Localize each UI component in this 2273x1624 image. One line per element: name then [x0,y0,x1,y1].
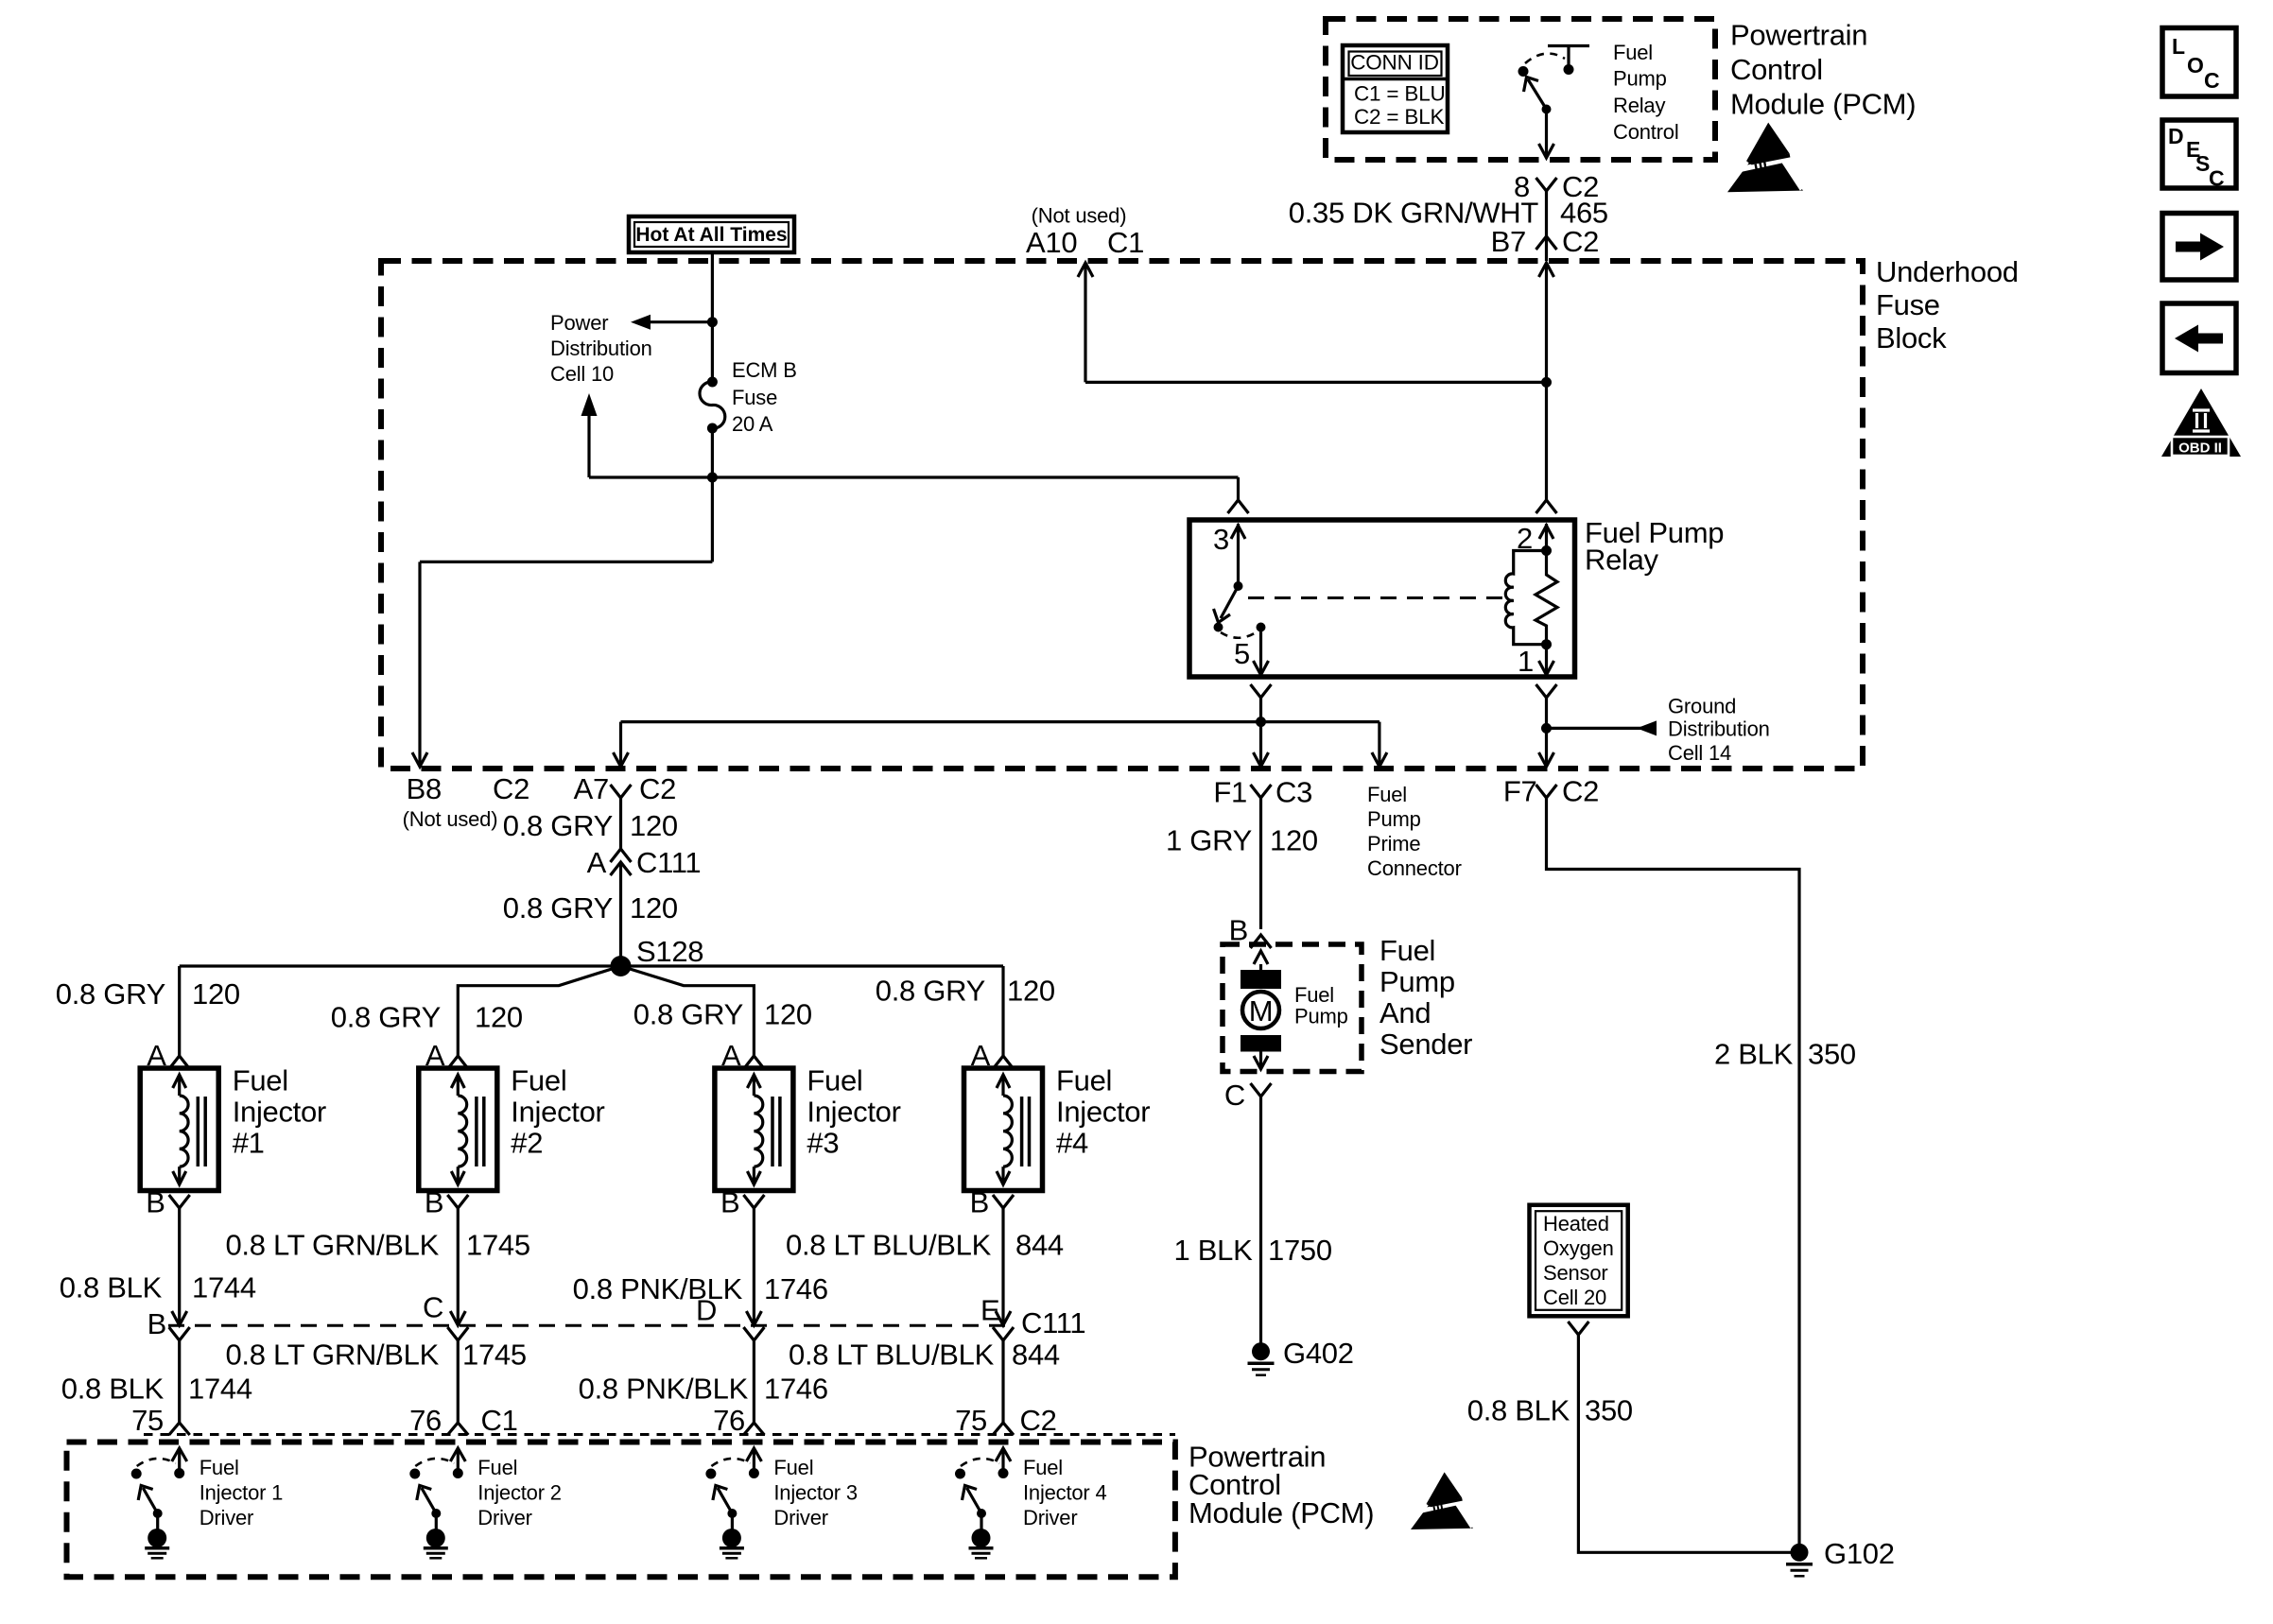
fuel injector #3 box [715,1068,793,1191]
svg-text:#3: #3 [807,1127,839,1160]
svg-text:0.8 GRY: 0.8 GRY [633,998,743,1031]
wire F7 exit [1545,728,1548,764]
icon LOC box [2162,28,2236,97]
svg-text:Fuel: Fuel [807,1064,862,1097]
svg-text:B7: B7 [1491,225,1526,258]
svg-text:1: 1 [1518,645,1534,678]
svg-text:2 BLK: 2 BLK [1714,1038,1794,1071]
wire injector 3 to PCM [753,1340,755,1423]
relay pin 1 fork below [1536,684,1557,698]
svg-text:E: E [980,1294,999,1327]
junction node ground distribution [1541,723,1552,734]
svg-text:Sensor: Sensor [1543,1261,1608,1285]
svg-text:C111: C111 [1021,1306,1085,1339]
svg-text:D: D [2168,124,2184,148]
svg-text:C1 = BLU: C1 = BLU [1354,82,1446,106]
Powertrain Control Module (PCM) dashed box, top [1326,19,1715,160]
connector C111 fork injector 3 [743,1327,764,1340]
svg-text:Fuel: Fuel [200,1456,239,1479]
svg-text:G102: G102 [1824,1537,1895,1570]
svg-text:Oxygen: Oxygen [1543,1236,1614,1260]
connector pin A fork injector 2 [447,1056,468,1069]
fuel injector #4 box [964,1068,1043,1191]
svg-text:Pump: Pump [1294,1005,1348,1028]
svg-text:A: A [587,846,607,879]
svg-text:Block: Block [1876,321,1947,354]
svg-text:Fuse: Fuse [1876,288,1940,321]
PCM connector dashed line [144,1433,1175,1436]
svg-text:Power: Power [550,311,608,335]
svg-text:350: 350 [1585,1394,1633,1427]
wire B8 not used [420,561,712,563]
Powertrain Control Module (PCM) dashed box bottom [67,1443,1175,1578]
svg-text:Injector 1: Injector 1 [200,1481,284,1505]
svg-text:C2: C2 [1020,1404,1057,1437]
ESD sensitive symbol bottom PCM [1411,1472,1476,1529]
Heated Oxygen Sensor Cell 20 box [1530,1205,1628,1317]
svg-text:Injector: Injector [807,1096,900,1129]
svg-text:Cell 20: Cell 20 [1543,1286,1606,1309]
svg-text:B8: B8 [407,772,442,805]
driver fuel injector 4 switch [1001,1450,1004,1471]
wire A10 C1 not used entry [1078,263,1093,277]
svg-text:120: 120 [1270,824,1318,857]
relay pin 5 fork below [1251,684,1272,698]
svg-text:Fuel: Fuel [477,1456,517,1479]
svg-text:A7: A7 [574,772,609,805]
svg-text:Fuel: Fuel [511,1064,566,1097]
svg-text:C2: C2 [1562,775,1599,808]
driver 2 ground [426,1529,445,1547]
relay coil link dashed [1248,596,1505,599]
svg-text:0.8 GRY: 0.8 GRY [503,809,613,842]
connector pin A fork injector 3 [743,1056,764,1069]
connector pin A fork injector 1 [169,1056,190,1069]
connector 8 C2 fork [1536,178,1557,191]
relay pin 3 fork [1228,500,1249,513]
wire 1750 BLK to G402 [1259,1097,1262,1343]
svg-text:Fuel: Fuel [773,1456,813,1479]
driver 1 ground [147,1529,166,1547]
wire injector 4 to C111 [1001,1208,1004,1322]
connector PCM fork injector 4 [993,1423,1014,1435]
svg-text:Relay: Relay [1613,94,1665,117]
svg-text:120: 120 [630,809,678,842]
svg-text:0.8 PNK/BLK: 0.8 PNK/BLK [573,1272,743,1305]
svg-text:C1: C1 [1107,226,1144,259]
wire junction to fuel pump prime connector [1261,720,1379,723]
connector C111 dashed line [168,1324,1008,1327]
svg-text:0.8 PNK/BLK: 0.8 PNK/BLK [579,1373,749,1406]
relay switch pivot [1234,581,1243,591]
svg-text:120: 120 [764,998,812,1031]
svg-text:Powertrain: Powertrain [1730,19,1867,52]
wire to Ground Distribution Cell 14 [1547,727,1650,730]
fuel injector #1 box [140,1068,218,1191]
connector F7 C2 fork [1536,785,1557,798]
ground G402 [1252,1342,1270,1360]
svg-text:Injector: Injector [233,1096,326,1129]
icon forward arrow box [2162,214,2236,281]
svg-text:0.8 LT BLU/BLK: 0.8 LT BLU/BLK [789,1339,995,1372]
svg-text:#1: #1 [233,1127,265,1160]
wire injector 2 to C111 [457,1208,460,1322]
svg-text:1 BLK: 1 BLK [1174,1234,1254,1267]
fuel pump motor M1 [1254,951,1268,964]
wire Cell 10 feed up arrow [587,408,590,477]
wire S128 to injector 1 [178,966,181,1056]
svg-text:Ground: Ground [1668,695,1736,718]
connector pin C fork fuel pump [1251,1083,1272,1097]
svg-text:1745: 1745 [466,1229,530,1262]
connector C111 fork injector 2 [447,1327,468,1340]
svg-text:Driver: Driver [200,1506,253,1529]
svg-text:G402: G402 [1283,1337,1354,1370]
relay pin 2 fork [1536,500,1557,513]
wire 465 DK GRN/WHT [1545,191,1548,261]
svg-text:120: 120 [630,891,678,924]
driver 4 ground wire [980,1513,982,1529]
connector A C111 inline [611,849,632,862]
svg-text:1746: 1746 [764,1373,828,1406]
svg-text:O: O [2187,53,2204,78]
svg-text:C1: C1 [481,1404,518,1437]
svg-text:Fuel: Fuel [1379,934,1435,967]
fuel pump relay box [1189,520,1575,677]
svg-text:0.8 LT BLU/BLK: 0.8 LT BLU/BLK [786,1229,992,1262]
svg-text:0.8 LT GRN/BLK: 0.8 LT GRN/BLK [225,1229,439,1262]
wire pin 8 relay control inside PCM [1545,110,1548,156]
driver U1 fuel pump relay control switch [1548,44,1589,47]
relay pin 1 wire [1545,645,1548,672]
junction node pin5 F1 [1256,717,1266,727]
fuel injector #4 coil [997,1075,1010,1088]
icon OBD II triangle [2161,389,2241,457]
svg-text:76: 76 [713,1404,745,1437]
connector PCM fork injector 3 [743,1423,764,1435]
svg-text:Fuel: Fuel [1056,1064,1112,1097]
svg-text:B: B [425,1186,443,1219]
svg-text:Control: Control [1730,53,1823,86]
svg-text:844: 844 [1015,1229,1064,1262]
wire S128 to injector 3 [621,966,755,1056]
wire F1 exit [1259,722,1262,764]
fuel injector #2 box [419,1068,497,1191]
svg-text:C2 = BLK: C2 = BLK [1354,105,1445,129]
svg-text:B: B [147,1307,166,1340]
svg-text:C: C [423,1291,443,1324]
svg-text:Module (PCM): Module (PCM) [1189,1496,1374,1529]
wire injector 2 to PCM [457,1340,460,1423]
svg-text:B: B [146,1186,165,1219]
svg-text:F1: F1 [1213,776,1247,809]
relay switch linkage dashed arc [1221,631,1258,638]
svg-text:0.8 BLK: 0.8 BLK [1467,1394,1570,1427]
svg-text:5: 5 [1234,637,1250,670]
wire injector 4 to PCM [1001,1340,1004,1423]
svg-text:120: 120 [475,1001,523,1034]
svg-text:Pump: Pump [1613,67,1667,91]
svg-text:C111: C111 [636,846,701,879]
fuel injector #1 core [197,1097,200,1166]
svg-text:#2: #2 [511,1127,543,1160]
icon DESC box [2162,120,2236,188]
ground G102 [1791,1544,1809,1562]
relay coil L1 [1505,551,1546,645]
driver 1 ground wire [156,1513,159,1529]
wire 120 GRY from A7 [619,798,622,849]
svg-text:Heated: Heated [1543,1212,1609,1235]
connector pin B fork injector 4 [993,1195,1014,1208]
svg-text:0.8 BLK: 0.8 BLK [60,1271,163,1304]
fuel injector #3 core [771,1097,774,1166]
wire 350 BLK to G102 [1547,798,1800,1552]
connector PCM fork injector 2 [447,1423,468,1435]
svg-text:C: C [2209,166,2225,191]
svg-text:Driver: Driver [773,1506,827,1529]
svg-text:75: 75 [131,1404,164,1437]
svg-text:Injector 2: Injector 2 [477,1481,562,1505]
connector pin A fork injector 4 [993,1056,1014,1069]
svg-text:0.8 LT GRN/BLK: 0.8 LT GRN/BLK [225,1339,439,1372]
icon back arrow box [2162,303,2236,373]
svg-text:0.8 GRY: 0.8 GRY [876,975,985,1008]
wire 120 GRY to S128 [619,862,622,966]
svg-text:C2: C2 [1562,225,1599,258]
driver 4 ground [972,1529,991,1547]
svg-text:ECM B: ECM B [732,358,797,382]
svg-text:Module (PCM): Module (PCM) [1730,88,1916,121]
svg-text:Relay: Relay [1585,544,1659,577]
wire S128 to injector 2 [458,966,620,1056]
svg-text:350: 350 [1808,1038,1856,1071]
connector pin B fork injector 3 [743,1195,764,1208]
svg-text:1 GRY: 1 GRY [1166,824,1252,857]
wire from Hot At All Times to fuse [711,252,714,380]
svg-text:1746: 1746 [764,1272,828,1305]
connector fork below O2 sensor [1568,1322,1588,1335]
fuel injector #2 core [475,1097,478,1166]
svg-text:76: 76 [409,1404,442,1437]
wire to Power Distribution Cell 10 [651,320,712,323]
wire injector 1 to C111 [178,1208,181,1322]
svg-text:CONN ID: CONN ID [1350,51,1439,75]
relay pin 5 wire [1259,628,1262,673]
svg-text:Fuel: Fuel [1367,783,1407,806]
relay switch contact [1214,623,1223,632]
svg-text:C: C [2204,68,2220,93]
driver 3 ground wire [731,1513,734,1529]
svg-text:And: And [1379,996,1431,1029]
svg-text:Hot At All Times: Hot At All Times [635,224,787,246]
svg-text:Driver: Driver [477,1506,531,1529]
relay pin 3 wire [1231,526,1245,539]
svg-text:Underhood: Underhood [1876,255,2019,288]
svg-text:75: 75 [955,1404,987,1437]
arrow to Power Distribution [631,315,651,330]
svg-text:OBD II: OBD II [2178,441,2222,457]
svg-text:Fuel: Fuel [1023,1456,1063,1479]
connector C111 fork injector 4 [993,1327,1014,1340]
svg-text:Prime: Prime [1367,832,1420,855]
svg-text:C2: C2 [639,772,676,805]
svg-text:1745: 1745 [462,1339,527,1372]
connector PCM fork injector 1 [169,1423,190,1435]
CONN ID table [1343,45,1448,132]
Underhood Fuse Block dashed box [381,261,1863,769]
ESD sensitive symbol, top PCM [1727,123,1806,193]
driver fuel injector 1 switch [178,1450,181,1471]
splice S128 [611,956,632,976]
svg-text:Injector 3: Injector 3 [773,1481,858,1505]
svg-text:B: B [720,1186,739,1219]
svg-text:Pump: Pump [1379,965,1455,998]
wire 120 GRY to pump [1259,798,1262,929]
relay pin 5 node [1257,623,1266,632]
svg-text:0.8 GRY: 0.8 GRY [331,1001,441,1034]
wire S128 to injector 4 [1001,966,1004,1056]
svg-text:M: M [1249,994,1274,1028]
wire pin1 to F7 [1545,698,1548,728]
svg-text:Cell 10: Cell 10 [550,362,614,386]
fuel injector #2 coil [451,1075,464,1088]
fuse F1 ECM B 20A [707,377,718,388]
driver fuel injector 2 switch [457,1450,460,1471]
fuel injector #1 coil [173,1075,186,1088]
svg-text:A10: A10 [1026,226,1077,259]
svg-text:Fuel: Fuel [233,1064,288,1097]
Fuel Pump And Sender dashed box [1223,944,1362,1072]
connector B7 C2 fork [1536,236,1557,250]
svg-text:Cell 14: Cell 14 [1668,741,1731,765]
svg-text:Distribution: Distribution [1668,717,1770,741]
svg-text:Injector 4: Injector 4 [1023,1481,1107,1505]
svg-text:Injector: Injector [1056,1096,1150,1129]
Hot At All Times box [629,216,794,252]
svg-text:#4: #4 [1056,1127,1088,1160]
relay coil node top [1541,545,1552,556]
junction node B7 A10 [1541,377,1552,388]
relay resistor R1 [1536,551,1557,645]
svg-text:D: D [696,1294,717,1327]
svg-text:Fuse: Fuse [732,386,777,409]
svg-text:0.8 GRY: 0.8 GRY [503,891,613,924]
svg-text:C3: C3 [1275,776,1312,809]
wire junction to A7 [621,720,1261,723]
driver 2 ground wire [435,1513,438,1529]
svg-text:0.8 GRY: 0.8 GRY [56,977,165,1011]
wire S128 bus [180,964,1003,967]
svg-text:B: B [970,1186,989,1219]
relay coil node bottom [1541,639,1552,649]
connector F1 C3 fork [1251,785,1272,798]
driver 3 ground [722,1529,741,1547]
svg-text:Connector: Connector [1367,856,1462,880]
fuel injector #4 core [1020,1097,1024,1166]
svg-text:Fuel: Fuel [1294,983,1334,1007]
relay switch blade [1221,586,1239,618]
svg-text:0.8 BLK: 0.8 BLK [61,1373,165,1406]
svg-text:C: C [1224,1079,1245,1112]
svg-text:L: L [2172,34,2185,59]
svg-text:Driver: Driver [1023,1506,1077,1529]
svg-text:120: 120 [1007,975,1055,1008]
svg-text:C2: C2 [493,772,529,805]
connector pin B fork fuel pump [1251,935,1272,948]
svg-text:Fuel: Fuel [1613,41,1653,64]
svg-text:3: 3 [1213,523,1229,556]
relay pin 2 wire [1539,526,1553,539]
svg-text:S128: S128 [636,935,703,968]
wire injector 1 to PCM [178,1340,181,1423]
junction node below fuse [707,473,718,483]
svg-text:1744: 1744 [192,1271,256,1304]
wire pin 5 to junction [1259,698,1262,722]
svg-text:Pump: Pump [1367,807,1421,831]
svg-text:Injector: Injector [511,1096,604,1129]
svg-text:120: 120 [192,977,240,1011]
svg-text:844: 844 [1012,1339,1060,1372]
svg-text:(Not used): (Not used) [403,807,498,831]
svg-text:1744: 1744 [188,1373,252,1406]
svg-text:1750: 1750 [1268,1234,1332,1267]
fuel injector #3 coil [747,1075,760,1088]
driver fuel injector 3 switch [753,1450,755,1471]
svg-text:(Not used): (Not used) [1032,204,1127,228]
wire injector 3 to C111 [753,1208,755,1322]
wire 350 BLK from O2 sensor [1578,1335,1799,1552]
svg-text:Distribution: Distribution [550,337,652,360]
wire B7 to relay pin 2 [1539,263,1554,277]
svg-text:20 A: 20 A [732,412,773,436]
connector A7 C2 fork [611,785,632,798]
wire below fuse [711,428,714,561]
svg-text:Sender: Sender [1379,1028,1472,1061]
svg-text:F7: F7 [1503,775,1537,808]
connector pin B fork injector 1 [169,1195,190,1208]
svg-text:Control: Control [1613,120,1679,144]
connector C111 fork injector 1 [169,1327,190,1340]
wire fuse output to relay pin 3 [589,475,1239,478]
connector pin B fork injector 2 [447,1195,468,1208]
junction node power distribution [707,317,718,327]
